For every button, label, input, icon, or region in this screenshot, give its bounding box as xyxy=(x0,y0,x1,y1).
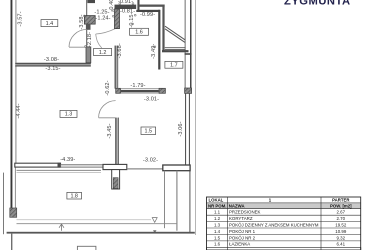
steps vertical line 2 xyxy=(176,171,177,231)
svg-text:KORYTARZ: KORYTARZ xyxy=(229,216,253,221)
wall room1.4 bottom xyxy=(15,63,91,67)
wall dark column corridor-right xyxy=(115,9,120,29)
wall top center band xyxy=(115,5,137,9)
door leaf room 1.4 open xyxy=(69,46,86,48)
room label 1.4 xyxy=(41,20,58,27)
svg-text:-3.01-: -3.01- xyxy=(144,96,159,102)
wall left lower inner line xyxy=(15,167,16,208)
wall segment below door 1.4 xyxy=(86,47,91,63)
svg-text:-3.15-: -3.15- xyxy=(45,66,60,72)
svg-text:1: 1 xyxy=(269,198,272,203)
wall left exterior inner line xyxy=(15,0,16,164)
wall column below pier xyxy=(86,24,91,30)
svg-text:1.8: 1.8 xyxy=(70,194,78,200)
svg-text:9.32: 9.32 xyxy=(337,235,346,240)
svg-text:POKÓJ DZIENNY Z ANEKSEM KUCHEN: POKÓJ DZIENNY Z ANEKSEM KUCHENNYM xyxy=(229,222,319,227)
svg-text:-1.79-: -1.79- xyxy=(130,83,145,89)
svg-text:PARTER: PARTER xyxy=(332,198,350,203)
svg-text:1.3: 1.3 xyxy=(214,222,221,227)
svg-text:1.6: 1.6 xyxy=(135,30,143,36)
svg-text:POKÓJ NR 2: POKÓJ NR 2 xyxy=(229,235,256,240)
svg-text:ŁAZIENKA: ŁAZIENKA xyxy=(229,242,250,247)
stairs rail line 1 xyxy=(185,0,186,93)
svg-text:-3.02-: -3.02- xyxy=(143,158,158,164)
svg-text:1.6: 1.6 xyxy=(214,242,221,247)
wall bathroom left xyxy=(137,0,139,12)
svg-text:1.7: 1.7 xyxy=(170,63,178,69)
wall unit right lower double line xyxy=(185,93,186,165)
svg-text:-0.99-: -0.99- xyxy=(140,12,155,18)
svg-text:2.70: 2.70 xyxy=(337,216,346,221)
window 1.3 bottom xyxy=(61,163,104,165)
wall bar below stairs xyxy=(162,50,189,52)
stairs small bar xyxy=(185,53,192,55)
corridor door arc A xyxy=(96,29,116,34)
terrace right boundary line xyxy=(189,171,190,233)
door leaf room 1.5 open xyxy=(99,117,116,119)
door arc room 1.4 xyxy=(69,29,87,47)
svg-text:1.5: 1.5 xyxy=(214,235,221,240)
wall pier xyxy=(84,16,95,25)
svg-text:-1.24-: -1.24- xyxy=(95,16,110,22)
svg-text:1.4: 1.4 xyxy=(46,21,54,27)
window middle frame xyxy=(121,88,159,90)
wall bottom right hollow band xyxy=(163,165,190,171)
svg-text:6.41: 6.41 xyxy=(337,242,346,247)
room label 1.5 xyxy=(141,127,156,135)
stairs rail line 3 light xyxy=(195,0,196,235)
svg-text:NAZWA: NAZWA xyxy=(229,203,245,208)
stairs diagonal 2 xyxy=(165,29,185,43)
wall unit vertical right of bathroom outer xyxy=(162,5,164,51)
window wall right end block xyxy=(185,88,192,93)
svg-text:-4.39-: -4.39- xyxy=(60,157,75,163)
balcony door bar outlined xyxy=(103,164,127,169)
svg-text:NR POM.: NR POM. xyxy=(208,203,226,208)
svg-text:ZYGMUNTA: ZYGMUNTA xyxy=(284,0,351,8)
svg-text:-0.15-: -0.15- xyxy=(129,12,135,27)
bottom furniture box (cut) xyxy=(77,246,96,250)
balcony door stem hatch xyxy=(113,178,118,189)
svg-text:1.2: 1.2 xyxy=(99,50,107,56)
table outer border xyxy=(207,197,361,250)
wall unit vertical right of bathroom inner xyxy=(158,10,160,70)
svg-text:1.3: 1.3 xyxy=(65,112,73,118)
dim tick circles xyxy=(83,15,85,17)
svg-text:-3.57-: -3.57- xyxy=(18,11,24,26)
svg-text:PRZEDSIONEK: PRZEDSIONEK xyxy=(229,210,261,215)
door arc room 1.5 entry xyxy=(99,101,116,118)
svg-text:-2.18-: -2.18- xyxy=(87,32,93,47)
room label 1.7 xyxy=(165,61,183,68)
svg-text:-3.08-: -3.08- xyxy=(44,57,59,63)
table header row2 gray bg xyxy=(207,203,361,209)
window wall middle: left end block xyxy=(116,88,121,93)
svg-text:POW. [m2]: POW. [m2] xyxy=(330,203,352,208)
area table xyxy=(207,197,361,250)
window middle right block xyxy=(159,88,165,93)
table vertical lines xyxy=(227,197,229,250)
svg-text:1.1: 1.1 xyxy=(214,210,221,215)
entry arrow xyxy=(61,224,63,231)
svg-text:2.67: 2.67 xyxy=(337,210,346,215)
stairs landing line 2 xyxy=(165,49,186,51)
svg-text:LOKAL: LOKAL xyxy=(209,198,224,203)
bottom slab dark line xyxy=(7,232,195,234)
level marker xyxy=(152,218,157,223)
left accent line xyxy=(3,173,4,235)
wall nib top xyxy=(87,0,95,3)
room label 1.8 xyxy=(67,192,82,199)
stairs rail line 2 dark xyxy=(190,0,192,89)
terrace faint line xyxy=(17,219,152,221)
stairs diagonal 1 xyxy=(165,26,185,40)
room label 1.2 xyxy=(94,48,112,55)
svg-text:-3.06-: -3.06- xyxy=(178,121,184,136)
svg-text:-0.62-: -0.62- xyxy=(105,80,111,95)
svg-text:10.99: 10.99 xyxy=(335,229,347,234)
svg-text:-3.68-: -3.68- xyxy=(117,43,123,58)
room label 1.6 xyxy=(130,28,149,35)
svg-text:POKÓJ NR 1: POKÓJ NR 1 xyxy=(229,229,256,234)
svg-text:1.2: 1.2 xyxy=(214,216,221,221)
svg-text:-1.25-: -1.25- xyxy=(94,9,109,15)
svg-text:19.52: 19.52 xyxy=(335,222,347,227)
wall bathroom top inner line xyxy=(136,10,160,12)
terrace front thin line xyxy=(17,223,178,225)
wall corridor-right lower segment xyxy=(115,46,118,89)
wall end hatch block xyxy=(10,208,17,217)
svg-text:1.4: 1.4 xyxy=(214,229,221,234)
bottom left vertical stub xyxy=(11,234,12,250)
room label 1.3 xyxy=(60,110,77,117)
balcony door stem outlined xyxy=(112,170,120,189)
wall bathroom top outer line xyxy=(139,5,165,7)
terrace line to wall xyxy=(127,168,163,170)
steps vertical line 1 xyxy=(164,171,165,229)
wall corridor-left thin line (door leaf) xyxy=(86,0,87,63)
wall 1.3 bottom end block xyxy=(58,163,61,168)
svg-text:1.5: 1.5 xyxy=(145,129,153,135)
svg-text:-3.45-: -3.45- xyxy=(107,123,113,138)
terrace edge double line xyxy=(17,169,102,171)
wall 1.3 bottom hollow band xyxy=(15,163,61,167)
table horizontal lines xyxy=(207,202,361,204)
stairs landing line 1 xyxy=(165,47,186,49)
svg-text:-4.44-: -4.44- xyxy=(16,103,22,118)
corridor door arc B xyxy=(96,34,102,48)
wall between 1.3 and 1.5 xyxy=(115,118,119,165)
wall left exterior outer line xyxy=(11,0,13,218)
